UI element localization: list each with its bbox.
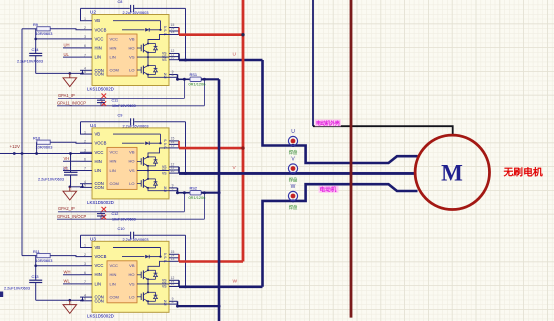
svg-text:10: 10 (171, 55, 175, 59)
svg-text:7: 7 (84, 167, 86, 171)
svg-text:3: 3 (84, 35, 86, 39)
svg-text:GPA1_IP: GPA1_IP (58, 93, 75, 98)
wire P bus U2 (179, 33, 243, 36)
svg-text:UL: UL (64, 52, 70, 57)
wire W phase bus from U3 (179, 285, 263, 288)
driver IC U2 LKS1D5002D body (92, 15, 169, 86)
svg-text:10R/0603: 10R/0603 (36, 145, 53, 150)
svg-text:CON: CON (95, 185, 104, 190)
label 电动机 highlighted (319, 186, 339, 193)
svg-text:VCC: VCC (110, 150, 119, 155)
pins 9 8 N of U2 (169, 74, 178, 76)
svg-text:3: 3 (84, 262, 86, 266)
svg-text:5: 5 (84, 184, 86, 188)
capacitor C11 10nF10V/0603 (100, 98, 102, 100)
wire V phase bus from U4 (179, 172, 415, 175)
pad W terminal (288, 191, 297, 200)
svg-text:VL: VL (64, 165, 70, 170)
wire N tie bar U3 (177, 301, 179, 306)
transistor high-side IGBT of U2 (137, 47, 141, 49)
wire GPA2_IP sense (58, 211, 184, 213)
svg-text:C12: C12 (112, 212, 119, 216)
svg-text:VS: VS (162, 171, 167, 175)
ground (69, 187, 71, 191)
svg-text:HIN: HIN (95, 272, 102, 277)
svg-text:13: 13 (171, 144, 175, 148)
pins 12 11 10 VS of U2 (169, 53, 179, 55)
svg-text:W: W (233, 278, 238, 284)
capacitor C10 bootstrap 2.2uF16V/0603 (130, 232, 132, 239)
wire bootstrap top U2 (81, 7, 130, 9)
svg-text:HO: HO (129, 159, 135, 164)
wire P tie bar U4 (178, 141, 180, 148)
pins 15 14 13 P of U2 (169, 27, 179, 29)
svg-text:7: 7 (84, 280, 86, 284)
svg-text:HIN: HIN (110, 272, 117, 277)
svg-text:焊盘: 焊盘 (289, 204, 298, 211)
svg-text:VCC: VCC (110, 36, 119, 41)
wire C14 to ground row (35, 56, 37, 74)
ground (69, 73, 71, 77)
svg-text:CON: CON (95, 72, 104, 77)
wire N tie bar U2 (177, 75, 179, 80)
transistor low-side IGBT of U4 (137, 182, 141, 184)
svg-text:VS: VS (162, 285, 167, 289)
driver IC U4 LKS1D5002D body (92, 128, 169, 199)
wire VS tie bar U3 (178, 280, 180, 287)
svg-text:UH: UH (64, 43, 70, 48)
svg-text:13: 13 (171, 30, 175, 34)
wire feed to R9 (22, 28, 37, 30)
svg-text:LIN: LIN (110, 281, 116, 286)
wire RS2 to N bus (201, 192, 219, 194)
svg-text:2.2uF10V/0603: 2.2uF10V/0603 (38, 178, 64, 182)
svg-text:VS: VS (129, 55, 135, 60)
svg-text:M: M (441, 161, 463, 186)
pins 1 2 3 6 7 4 5 of U2 (80, 20, 92, 22)
svg-text:GPA2_IP: GPA2_IP (58, 206, 75, 211)
svg-text:LIN: LIN (110, 168, 116, 173)
svg-text:VS: VS (162, 58, 167, 62)
capacitor C8 bootstrap 2.2uF16V/0603 (130, 5, 132, 12)
svg-text:U: U (291, 129, 295, 135)
wire N pins of U3 to N bus (176, 305, 179, 308)
svg-text:1: 1 (84, 17, 86, 21)
wire sense drop right (203, 79, 205, 106)
svg-text:VCC: VCC (95, 36, 104, 41)
wire CON pins tie (82, 70, 84, 74)
wire VCC branch of C14 (35, 29, 37, 54)
svg-text:焊盘: 焊盘 (289, 149, 298, 156)
wire P tie bar U2 (178, 28, 180, 35)
svg-text:LIN: LIN (95, 168, 102, 173)
svg-text:VB: VB (95, 18, 101, 23)
svg-text:VB: VB (129, 150, 135, 155)
wire bootstrap top U3 (81, 234, 130, 236)
wire bootstrap to VS U4 (185, 122, 187, 174)
svg-text:W: W (291, 184, 296, 190)
svg-text:HIN: HIN (110, 45, 117, 50)
wire CON pins tie U4 (82, 184, 84, 188)
wire U phase bus from U2 (179, 59, 263, 62)
wire R11 to VOCB pin (50, 256, 80, 257)
label 电动机外壳 highlighted (315, 120, 341, 127)
svg-text:C11: C11 (112, 99, 119, 103)
resistor R11 10R/0603 (37, 254, 50, 258)
capacitor C9 bootstrap 2.2uF16V/0603 (130, 118, 132, 125)
diode bootstrap inside U2 (122, 29, 145, 31)
pins 15 14 13 P of U4 (169, 140, 179, 142)
svg-text:6: 6 (84, 158, 86, 162)
svg-text:WL: WL (64, 279, 71, 284)
svg-text:1: 1 (84, 244, 86, 248)
svg-text:2.2uF10V/0603: 2.2uF10V/0603 (4, 286, 30, 290)
wire sense drop left (183, 79, 185, 98)
svg-text:10R/0603: 10R/0603 (36, 31, 53, 36)
svg-text:R10: R10 (33, 136, 41, 141)
svg-text:3: 3 (84, 149, 86, 153)
svg-text:LIN: LIN (110, 55, 116, 60)
driver U2 internal block (107, 34, 137, 76)
svg-text:10nF10V/0603: 10nF10V/0603 (112, 217, 136, 221)
svg-text:VB: VB (129, 36, 135, 41)
svg-text:HIN: HIN (110, 159, 117, 164)
svg-text:+12V: +12V (10, 144, 20, 149)
wire motor case to motor body (313, 126, 453, 135)
svg-text:RS2: RS2 (190, 185, 198, 190)
svg-text:LKS1D5002D: LKS1D5002D (87, 87, 114, 92)
wire VCC branch of C13 (35, 256, 37, 281)
ground (69, 300, 71, 304)
svg-text:LKS1D5002D: LKS1D5002D (87, 314, 114, 319)
svg-text:VS: VS (129, 168, 135, 173)
wire sense drop right (203, 193, 205, 220)
wire high-side collector to P pins U4 (148, 148, 169, 157)
wire bootstrap to VS U2 (185, 8, 187, 60)
wire VS phase node inside U2 (147, 53, 149, 66)
wire bootstrap to VS U3 (185, 235, 187, 287)
svg-text:LO: LO (129, 68, 134, 73)
svg-text:0R1/1206: 0R1/1206 (189, 82, 206, 87)
svg-text:VH: VH (64, 156, 70, 161)
svg-text:CON: CON (95, 298, 104, 303)
svg-text:LO: LO (129, 295, 134, 300)
wire VS tie bar U2 (178, 54, 180, 61)
wire VS tie bar U4 (178, 167, 180, 174)
svg-text:LIN: LIN (95, 55, 102, 60)
capacitor C13 2.2uF10V/0603 (29, 279, 42, 281)
svg-text:13: 13 (171, 257, 175, 261)
svg-text:6: 6 (84, 44, 86, 48)
wire sense drop left (183, 193, 185, 212)
svg-text:10: 10 (171, 282, 175, 286)
svg-text:COM: COM (110, 295, 119, 300)
svg-text:1: 1 (84, 130, 86, 134)
svg-text:R11: R11 (33, 249, 40, 254)
wire +12V vertical distribution (21, 29, 23, 256)
pins 12 11 10 VS of U3 (169, 279, 179, 281)
capacitor C14 2.2uF10V/0603 (29, 52, 42, 54)
resistor R9 10R/0603 (37, 27, 50, 31)
wire P+ red bus vertical (242, 0, 245, 262)
wire C7 to ground row (70, 175, 72, 187)
svg-text:C14: C14 (32, 48, 39, 52)
svg-text:C13: C13 (32, 275, 39, 279)
wire phase U to pad (263, 60, 418, 163)
svg-text:7: 7 (84, 53, 86, 57)
transistor high-side IGBT of U3 (137, 274, 141, 276)
pins 1 2 3 6 7 4 5 of U4 (80, 133, 92, 135)
svg-text:VB: VB (95, 245, 101, 250)
svg-text:HIN: HIN (95, 159, 102, 164)
svg-text:0R1/1206: 0R1/1206 (189, 195, 206, 200)
svg-text:U: U (233, 52, 237, 58)
wire C13 to ground row (35, 283, 37, 301)
svg-text:10nF10V/0603: 10nF10V/0603 (112, 104, 136, 108)
svg-text:VCC: VCC (110, 263, 119, 268)
svg-text:VOCB: VOCB (95, 141, 107, 146)
boundary line motor housing (350, 0, 353, 318)
svg-text:2: 2 (84, 26, 86, 30)
motor M1 body (415, 135, 489, 209)
svg-text:U3: U3 (90, 236, 96, 241)
wire GPA21_IN/OCP sense (57, 218, 204, 220)
wire R9 to VOCB pin (50, 29, 80, 30)
svg-text:COM: COM (110, 68, 119, 73)
wire cropped at left edge (0, 292, 3, 298)
wire high-side collector to P pins U3 (148, 261, 169, 270)
wire feed to R11 (22, 255, 37, 257)
wire low-side emitter to N pins U4 (148, 188, 169, 191)
wire motor case shield vertical (312, 0, 314, 126)
svg-text:2.2uF10V/0603: 2.2uF10V/0603 (17, 60, 43, 64)
svg-text:VB: VB (95, 132, 101, 137)
resistor R10 10R/0603 (37, 140, 50, 144)
svg-text:8: 8 (172, 186, 174, 190)
capacitor C7 2.2uF10V/0603 (70, 154, 72, 173)
wire phase V to pad and motor (179, 172, 415, 175)
svg-text:R9: R9 (33, 22, 38, 27)
driver U4 internal block (107, 147, 137, 189)
svg-text:8: 8 (172, 73, 174, 77)
wire P bus U4 (179, 147, 243, 150)
pins 12 11 10 VS of U4 (169, 166, 179, 168)
resistor RS1 0R1/1206 shunt (176, 78, 179, 81)
diode bootstrap inside U3 (122, 256, 145, 258)
svg-text:8: 8 (172, 300, 174, 304)
svg-text:电动机外壳: 电动机外壳 (316, 120, 341, 127)
svg-text:C9: C9 (118, 114, 123, 118)
svg-text:LKS1D5002D: LKS1D5002D (87, 200, 114, 205)
wire VB net inside U2 (113, 20, 161, 22)
svg-text:VB: VB (129, 263, 135, 268)
svg-text:HO: HO (129, 45, 135, 50)
wire RS1 to N bus (201, 78, 219, 80)
wire GPA11_IN/OCP sense (57, 105, 204, 107)
wire low-side emitter to N pins U3 (148, 301, 169, 304)
wire CON pins tie (82, 297, 84, 301)
svg-text:VOCB: VOCB (95, 254, 107, 259)
pins 9 8 N of U3 (169, 300, 178, 302)
svg-text:U2: U2 (90, 10, 96, 15)
wire low-side emitter to N pins U2 (148, 75, 169, 78)
svg-text:VCC: VCC (95, 150, 104, 155)
svg-text:U4: U4 (90, 123, 96, 128)
wire N tie bar U4 (177, 188, 179, 193)
wire phase W to pad (263, 184, 418, 287)
wire R10 feed from +12V rail (36, 142, 38, 153)
svg-text:VCC: VCC (95, 263, 104, 268)
capacitor C12 10nF10V/0603 (100, 212, 102, 214)
svg-text:电动机: 电动机 (320, 186, 337, 194)
wire VS phase node inside U4 (147, 166, 149, 179)
svg-text:HIN: HIN (95, 45, 102, 50)
transistor high-side IGBT of U4 (137, 160, 141, 162)
wire GPA1_IP sense (58, 97, 184, 99)
svg-text:10: 10 (171, 169, 175, 173)
svg-text:LO: LO (129, 181, 134, 186)
svg-text:COM: COM (110, 181, 119, 186)
pins 15 14 13 P of U3 (169, 253, 179, 255)
wire R10 to VOCB pin (50, 142, 80, 143)
resistor RS2 0R1/1206 shunt (176, 191, 179, 194)
wire P tie bar U3 (178, 254, 180, 261)
svg-text:GPA11_IN/OCP: GPA11_IN/OCP (57, 100, 86, 105)
svg-text:HO: HO (129, 272, 135, 277)
wire high-side collector to P pins U2 (148, 35, 169, 44)
driver U3 internal block (107, 261, 137, 303)
svg-text:6: 6 (84, 271, 86, 275)
svg-text:RS1: RS1 (190, 72, 198, 77)
wire VB net inside U4 (113, 133, 161, 135)
svg-text:5: 5 (84, 297, 86, 301)
wire VS phase node inside U3 (147, 279, 149, 292)
wire +12V rail (0, 153, 92, 155)
pad V terminal (288, 164, 297, 173)
svg-text:焊盘: 焊盘 (289, 176, 298, 183)
svg-text:5: 5 (84, 70, 86, 74)
svg-text:2: 2 (84, 139, 86, 143)
svg-text:VS: VS (129, 281, 135, 286)
svg-text:C8: C8 (118, 0, 123, 4)
svg-text:VOCB: VOCB (95, 27, 107, 32)
transistor low-side IGBT of U2 (137, 69, 141, 71)
svg-text:WH: WH (64, 269, 71, 274)
svg-text:C10: C10 (118, 227, 125, 231)
wire P bus U3 (179, 260, 243, 263)
driver IC U3 LKS1D5002D body (92, 241, 169, 312)
pad U terminal (288, 136, 297, 145)
svg-text:10R/0603: 10R/0603 (36, 258, 53, 263)
pins 1 2 3 6 7 4 5 of U3 (80, 247, 92, 249)
wire VB net inside U3 (113, 247, 161, 249)
pins 9 8 N of U4 (169, 187, 178, 189)
diode bootstrap inside U4 (122, 142, 145, 144)
transistor low-side IGBT of U3 (137, 296, 141, 298)
svg-text:LIN: LIN (95, 281, 102, 286)
svg-text:2: 2 (84, 253, 86, 257)
wire bootstrap top U4 (81, 121, 130, 123)
svg-text:GPA21_IN/OCP: GPA21_IN/OCP (57, 214, 87, 219)
svg-text:无刷电机: 无刷电机 (503, 166, 543, 179)
wire N ground bus vertical (218, 79, 221, 321)
